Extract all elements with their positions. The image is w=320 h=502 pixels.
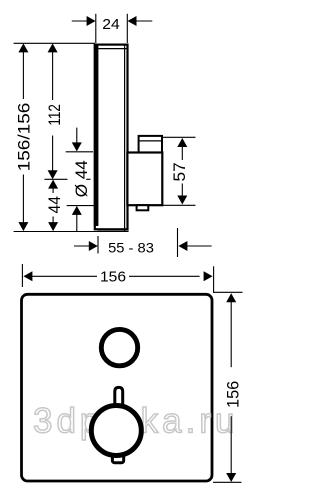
dim Ø44 (knob diameter) — [76, 128, 78, 232]
dim 55-83 (installation depth) — [74, 228, 212, 257]
dim 24 (top width dimension) — [72, 14, 153, 43]
housing lower extra line — [98, 230, 129, 232]
svg-text:Ø 44: Ø 44 — [72, 160, 91, 197]
dim 57 (handle height) — [162, 137, 196, 205]
big knob bottom tab — [112, 455, 123, 463]
knob bottom tick — [67, 205, 94, 207]
side-view housing box — [95, 45, 128, 230]
handle top box inner line — [139, 140, 162, 142]
svg-text:156: 156 — [224, 381, 243, 408]
small knob (front view) — [101, 329, 137, 365]
dim 44 (lower) — [52, 188, 54, 223]
left extension line bottom — [14, 231, 98, 233]
housing inner top line — [99, 48, 129, 50]
big knob (front view) — [91, 406, 141, 456]
dim 156 (front height, right) — [213, 292, 243, 482]
svg-text:112: 112 — [45, 104, 64, 126]
dim 156 (front width) — [22, 264, 213, 292]
svg-text:55 - 83: 55 - 83 — [108, 240, 154, 256]
svg-text:156: 156 — [100, 269, 126, 286]
svg-text:57: 57 — [170, 162, 189, 181]
handle main body — [127, 153, 162, 206]
front-view escutcheon plate 156x156 — [22, 294, 213, 481]
dim 112 — [52, 51, 54, 170]
housing inner right line — [124, 44, 126, 231]
left extension line top — [14, 42, 95, 44]
knob top tick — [66, 151, 93, 153]
dim 156/156 (overall height) — [22, 51, 24, 222]
svg-text:156/156: 156/156 — [14, 103, 33, 172]
handle bottom tab — [137, 205, 149, 210]
svg-text:44: 44 — [45, 196, 64, 214]
svg-text:24: 24 — [102, 16, 120, 33]
handle top box — [139, 136, 162, 153]
side-view plate edge (black bar) — [94, 44, 99, 226]
big knob stem — [115, 387, 123, 406]
handle centreline tick — [44, 178, 67, 180]
